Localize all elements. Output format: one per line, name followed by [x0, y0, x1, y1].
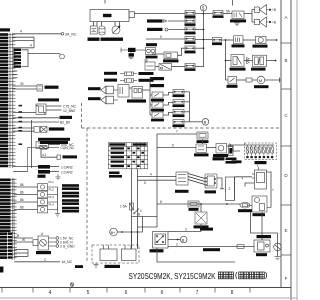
table header fills [109, 143, 146, 145]
svg-text:A: A [41, 232, 44, 236]
bus right vertical [225, 40, 227, 80]
ruler centre mark [70, 283, 73, 288]
sheet edge gray bottom [0, 297, 297, 299]
regulator U2 [252, 167, 267, 189]
label 发电机 [111, 38, 123, 41]
wire row2 in [226, 60, 232, 62]
label pilot 1 [62, 184, 79, 187]
relay box K3 [159, 64, 172, 71]
wire 86 [13, 88, 37, 90]
label L5 燃油泵 [38, 98, 59, 101]
zone letter left cut [0, 267, 3, 273]
wire center top [157, 133, 197, 135]
svg-text:1#_NC: 1#_NC [62, 260, 73, 264]
wire ignition bottom loop [157, 248, 235, 262]
wire table drop 2 [137, 169, 139, 248]
wire preheat feed [168, 246, 254, 248]
wire relay-starter [207, 147, 217, 149]
label 调速马达 [205, 190, 217, 193]
wire drop a [250, 212, 252, 233]
svg-text:8: 8 [231, 290, 234, 296]
starter 5-4 [216, 144, 227, 154]
fuse/relay F3 [185, 27, 195, 31]
wire bundle diagonal [188, 174, 205, 185]
svg-text:C: C [284, 113, 288, 118]
wire 4-1 [41, 150, 57, 157]
fuse/relay F11 [173, 110, 184, 115]
svg-text:3: 3 [185, 227, 187, 231]
pilot collector wire [57, 187, 59, 211]
label 手柄 [38, 175, 46, 178]
svg-text:PL4: PL4 [49, 203, 55, 207]
label 智能电 [101, 38, 112, 41]
display dashed box [92, 245, 139, 263]
wire B2 [13, 121, 59, 123]
wire top tap [150, 78, 153, 90]
svg-text:3A_NC: 3A_NC [65, 33, 77, 37]
svg-text:1: 1 [140, 209, 142, 213]
label pilot 4 [62, 207, 79, 210]
svg-text:B: B [182, 237, 185, 242]
amp box A1 [118, 85, 129, 98]
svg-text:86: 86 [20, 206, 24, 210]
wire L6 a [13, 127, 34, 129]
svg-text:30: 30 [20, 82, 24, 86]
wire amp pin hook [245, 183, 252, 187]
wire table drop 1 [131, 169, 133, 248]
svg-text:SY20SC9M2K, SY215C9M2K: SY20SC9M2K, SY215C9M2K [129, 272, 217, 281]
wire B+ [117, 231, 142, 233]
wire amp top feed [235, 177, 253, 200]
svg-text:5A: 5A [226, 9, 231, 13]
fuse on preheat wire [237, 245, 244, 249]
fuse/relay F5 [185, 46, 195, 50]
ground fuse link [129, 52, 134, 58]
label F:5A [197, 140, 209, 143]
wire motor right hook [217, 178, 224, 189]
junction dots [203, 13, 205, 49]
zone divider [281, 88, 291, 90]
svg-text:B: B [204, 120, 207, 125]
fuse/relay F9 [173, 90, 184, 95]
wire y227 [138, 217, 158, 228]
wire to horns [244, 10, 255, 23]
zone divider [281, 42, 291, 44]
dashed partition vertical lower [86, 128, 88, 263]
sheet border bottom line [0, 287, 291, 289]
fuse/relay F8 [213, 38, 222, 43]
label 4-1 喇叭继电器 [127, 99, 146, 102]
wire 3A_NC [13, 33, 61, 35]
svg-text:6: 6 [125, 290, 128, 296]
svg-text:W: W [22, 238, 25, 242]
wire valve top [200, 204, 202, 212]
terminal 3A_NC [61, 33, 64, 36]
pin stubs [13, 61, 18, 78]
svg-text:4: 4 [49, 290, 52, 296]
relay 1-6 [34, 127, 47, 133]
wire pin2 [13, 37, 34, 48]
svg-text:PL1: PL1 [49, 180, 55, 184]
relay 电源 [196, 144, 207, 152]
svg-text:D: D [284, 173, 288, 178]
label 1:电磁阀 [194, 225, 209, 228]
sensor box left [176, 172, 188, 185]
wire F3 in [169, 29, 186, 31]
fuse/relay F4 [185, 37, 195, 41]
wire starter out [227, 146, 241, 151]
svg-text:4: 4 [150, 173, 152, 177]
label 下车喇叭 [251, 68, 266, 71]
wire ignition to B [168, 239, 180, 241]
wire row1 end [266, 39, 276, 41]
display unit 1 [100, 245, 117, 261]
ground glow plug [275, 257, 281, 260]
label 运转信号灯2 [147, 28, 163, 31]
fuse/relay F12 [173, 120, 184, 125]
mid collector [189, 92, 191, 122]
label 2Y [227, 85, 238, 88]
governor motor box [205, 174, 217, 188]
label L2 安全阀 [230, 68, 246, 71]
terminal 3 [56, 245, 59, 248]
label 传感器 [36, 251, 51, 254]
terminal symbol [57, 155, 60, 159]
resistor R-5A on wire [188, 201, 199, 207]
wire drop b [261, 212, 263, 240]
svg-text:7: 7 [272, 188, 274, 192]
label 喇叭继电器 [230, 19, 246, 22]
wire B3Y-fuse [163, 112, 173, 115]
fuse 1-5A [130, 203, 134, 210]
diodes [247, 58, 250, 64]
wire pilot 3 [14, 201, 38, 203]
label 下车阀组 [253, 213, 266, 216]
fuse link blob [129, 53, 135, 56]
wire L6 b [13, 130, 34, 132]
glow plug R2 [274, 243, 282, 251]
fuse 4A [120, 72, 137, 75]
pressure switch PL2 [38, 191, 58, 198]
ruler tick [214, 288, 216, 293]
wire A#B2 [13, 117, 59, 119]
generator G1 [112, 26, 120, 34]
signal table [108, 143, 147, 169]
pressure switch PL1 [38, 184, 58, 191]
table row labels [111, 147, 144, 167]
wire sensor B [14, 237, 33, 239]
valve unit box [250, 196, 271, 212]
wire CAN2 b [13, 147, 28, 171]
svg-text:+B: +B [272, 20, 276, 24]
wire F4 in [146, 38, 185, 40]
wire solenoid left [240, 204, 250, 205]
zone divider [281, 254, 291, 256]
svg-text:12_BN0: 12_BN0 [63, 109, 75, 113]
svg-text:C: C [44, 258, 47, 262]
svg-text:6: 6 [161, 290, 164, 296]
wire pin3 [13, 40, 34, 42]
svg-text:4: 4 [30, 44, 32, 48]
label 运转信号灯 [147, 19, 163, 22]
dashed partition vertical upper [81, 103, 83, 128]
label 喇叭1 [88, 87, 101, 90]
svg-text:PL3: PL3 [49, 195, 55, 199]
ground pilot [55, 211, 60, 217]
wire 30 [13, 85, 37, 87]
wire row3 in [226, 79, 229, 81]
svg-text:5: 5 [202, 6, 205, 11]
wire F7-horn relay [223, 13, 232, 15]
horn relay K4 [232, 11, 244, 19]
ruler tick [69, 288, 71, 293]
label 上车喇叭 b [150, 77, 164, 80]
label 1-6 回转继电器 [49, 127, 65, 130]
wires spare [14, 250, 28, 257]
label 蓄电池 [88, 38, 100, 41]
wire 6 [157, 147, 196, 149]
svg-text:6: 6 [172, 144, 174, 148]
switch 2Y [228, 77, 237, 84]
capacitor/filter C1 [99, 26, 105, 35]
horn H1 [255, 5, 269, 15]
pressure sensor PS1 [38, 236, 56, 250]
label 电源继电器 [194, 153, 209, 156]
svg-text:B+: B+ [111, 231, 117, 235]
switch B2Y [152, 102, 163, 108]
svg-text:+B: +B [272, 8, 276, 12]
bus vertical [31, 120, 33, 168]
node 5 [200, 5, 206, 11]
node B [202, 119, 209, 126]
switch S2 [146, 43, 157, 46]
wire row2 end [267, 60, 276, 62]
svg-text:E: E [284, 228, 287, 233]
fuse/relay F6 [185, 64, 195, 68]
label R:5A [189, 208, 199, 211]
wire power out [134, 13, 185, 15]
wire 1#_NC [14, 261, 60, 263]
label L:报警器 b [150, 84, 164, 87]
sheet edge gray right [296, 0, 298, 300]
horn H2 [255, 17, 269, 27]
svg-text:5: 5 [144, 181, 146, 185]
wire main lower horizontal [157, 203, 240, 205]
relay L5 [36, 104, 46, 114]
valve block Y2 [253, 55, 267, 66]
connector J3 second column labels [8, 233, 12, 259]
fuse F:5A [197, 132, 208, 139]
svg-text:F: F [285, 276, 288, 281]
label L:报警器 [139, 79, 154, 82]
ruler tick [1, 288, 3, 293]
label 预热继电器 [257, 235, 272, 238]
switch B3Y [152, 112, 163, 118]
sensor plug [33, 240, 38, 246]
label 1-1 工作灯继电器 [45, 86, 59, 89]
switch contact [134, 209, 140, 215]
wire left rail mid column [150, 90, 152, 115]
preheat relay K5 [254, 240, 270, 252]
svg-text:B: B [17, 234, 19, 238]
wire fuse down [202, 139, 204, 144]
pressure switch PL3 [38, 199, 58, 206]
resistor CAN term [28, 146, 60, 150]
wire relay out [143, 89, 151, 91]
relay 1-1 box [164, 52, 178, 59]
svg-text:7: 7 [176, 130, 178, 134]
label pilot 2 [62, 192, 79, 195]
label 4-7 保险丝 [226, 158, 237, 161]
ruler tick [32, 288, 34, 293]
fuse small [246, 78, 252, 82]
ruler tick [249, 288, 251, 293]
terminal 1 [56, 237, 59, 240]
wire B1Y-fuse [163, 92, 173, 95]
fuse/relay F1 [185, 11, 195, 15]
label 4A [104, 72, 117, 75]
ground horn relay [234, 19, 239, 26]
wire B2Y-fuse [163, 102, 173, 105]
svg-text:M: M [259, 78, 262, 83]
svg-text:4-1: 4-1 [42, 153, 47, 157]
svg-text:1-5A: 1-5A [120, 205, 128, 209]
bracket wire [22, 50, 60, 67]
aux box 2 [226, 177, 235, 201]
fuse strip rail [228, 144, 274, 146]
wire ignition top [168, 224, 201, 232]
alarm U1 [234, 36, 244, 44]
wire row1 a [222, 39, 234, 41]
connector J3 pins 1-8 [0, 232, 17, 260]
solenoid coil 4-1 [240, 202, 250, 208]
svg-text:B: B [284, 58, 287, 63]
top border column tick 2 [104, 0, 106, 4]
svg-text:86: 86 [20, 198, 24, 202]
ground S2 [144, 58, 148, 61]
zone divider [281, 145, 291, 147]
ruler tick [144, 288, 146, 293]
svg-text:c:CAN2: c:CAN2 [61, 170, 73, 174]
svg-text:7: 7 [196, 290, 199, 296]
wire glow plug down [277, 251, 279, 257]
svg-text:2: 2 [176, 242, 178, 246]
wire pilot 1 [14, 186, 38, 188]
svg-text:B2_B0: B2_B0 [60, 121, 70, 125]
label 转速传感 [175, 190, 189, 193]
connector J1 header [0, 28, 10, 31]
wire pilot 2 [14, 194, 38, 196]
svg-text:8: 8 [160, 200, 162, 204]
label 1-1继电器 [163, 59, 179, 62]
wire pin4 [13, 47, 34, 49]
label b+ 蓄电池 [105, 265, 121, 268]
svg-text:A: A [284, 15, 288, 20]
wire drop x142.5 [142, 217, 144, 233]
label 4A b [104, 79, 117, 82]
label 5-1 回转马达 [253, 45, 268, 48]
label 预热塞 [256, 253, 267, 256]
wire row2 mid [244, 60, 253, 62]
fuse strip elements [246, 145, 273, 156]
label 1-5 连接器 [40, 141, 68, 144]
main bus vertical [203, 11, 205, 67]
fuse 4A b [120, 79, 137, 82]
power unit box [90, 10, 134, 22]
fuse/relay F7 [213, 11, 223, 15]
display unit 2 [122, 245, 137, 261]
label 4-2 连接器 [232, 160, 242, 163]
ruler tick [179, 288, 181, 293]
wire 12_BN [46, 109, 62, 111]
switch box S3 [145, 62, 155, 70]
relay L8 [36, 141, 48, 148]
label M 洗窗器电机 [254, 85, 269, 88]
svg-text:B: B [138, 212, 140, 216]
speaker SP2 [101, 96, 118, 104]
terminal 2 [56, 241, 59, 244]
wire preheat top [251, 233, 278, 243]
label 上车喇叭 [139, 72, 154, 75]
wire 5V6 [48, 144, 60, 146]
label 调速电机 [213, 157, 225, 160]
wire to node B [190, 121, 203, 123]
label 2 控制器 [109, 172, 120, 175]
fuse/relay F2 [185, 19, 195, 23]
solenoid valve Y1 [195, 212, 207, 224]
label 稳压器 [255, 161, 267, 164]
label U 报警器 [232, 44, 245, 47]
sheet border right outer line [290, 0, 292, 300]
speaker SP1 [101, 86, 118, 94]
fuse link F0 [121, 48, 145, 53]
wire amp-relay [129, 87, 132, 89]
connector J1 pins 1-40 [0, 33, 15, 168]
terminal H [60, 54, 65, 59]
wire display pins [132, 248, 138, 250]
wire row1 b [243, 39, 256, 41]
wire table link a [138, 176, 177, 178]
tap wires [195, 14, 213, 67]
svg-text:86: 86 [20, 183, 24, 187]
svg-text:c:CAN2: c:CAN2 [61, 165, 73, 169]
sheet border right inner line [280, 0, 282, 288]
fuse element 4-7 [229, 144, 234, 156]
node B ignition [180, 236, 187, 243]
ground display [93, 263, 98, 267]
option links K1 [14, 49, 22, 68]
wire drops into display [132, 232, 138, 248]
title CJK run [218, 272, 222, 279]
svg-text:4: 4 [20, 30, 22, 34]
label 4-1 电磁阀 [238, 209, 252, 212]
svg-text:5: 5 [160, 35, 162, 39]
svg-text:86: 86 [20, 191, 24, 195]
CAN2 boxes [38, 165, 50, 169]
wire row3 mid [237, 79, 247, 81]
wire amp right [267, 172, 272, 208]
top border column tick [232, 0, 234, 6]
pressure switch PL4 [38, 206, 58, 213]
label L8 自动怠速 [38, 138, 70, 141]
label S 点火开关 [150, 249, 164, 252]
battery GB [90, 26, 97, 34]
svg-text:5: 5 [87, 290, 90, 296]
svg-text:CAN_NC: CAN_NC [61, 146, 75, 150]
motor M1 [257, 76, 265, 84]
switch B1Y [152, 92, 163, 98]
power drops [94, 22, 120, 27]
